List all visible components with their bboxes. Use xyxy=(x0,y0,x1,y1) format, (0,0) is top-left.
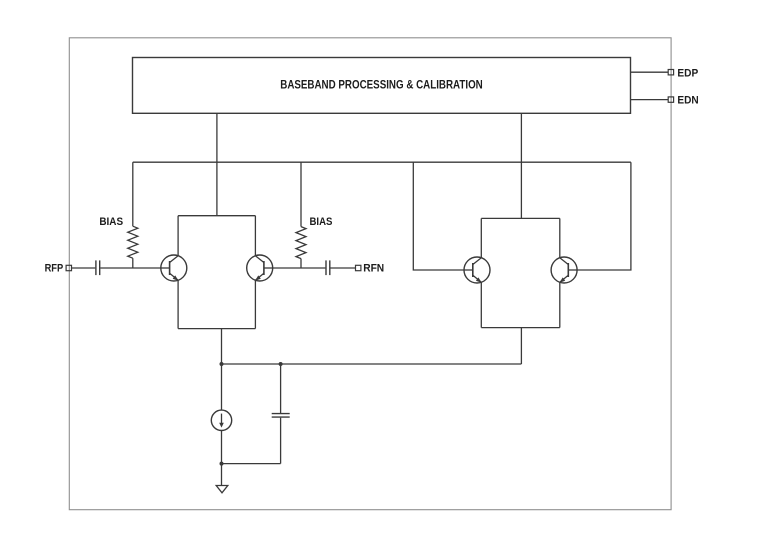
wire: Q2 base to capacitor C2 xyxy=(273,267,326,269)
transistor Q3 xyxy=(464,257,490,283)
pin RFN xyxy=(356,265,361,270)
wire: rail to resistor R1 xyxy=(132,162,134,226)
capacitor C1 xyxy=(96,260,100,275)
wire: bias rail xyxy=(133,161,631,163)
pin EDN xyxy=(668,97,673,102)
wire: left pair top edge xyxy=(178,215,255,217)
svg-text:EDN: EDN xyxy=(677,95,698,107)
wire: tail rail xyxy=(222,363,522,365)
wire: capacitor C1 to Q1 base xyxy=(100,267,161,269)
node: ground junction xyxy=(220,462,224,466)
wire: Q1 collector to left pair top xyxy=(177,216,179,256)
wire: Q4 base up to rail xyxy=(577,162,631,270)
wire: bypass branch to capacitor C3 xyxy=(280,364,282,413)
wire: resistor R1 to RFP line xyxy=(132,258,134,268)
svg-text:BIAS: BIAS xyxy=(99,216,123,228)
wire: Q3 emitter to right pair bottom xyxy=(480,282,482,327)
wire: baseband to EDN pin xyxy=(631,99,669,101)
wire: capacitor C3 to ground rail xyxy=(280,418,282,464)
resistor R1 xyxy=(128,226,138,258)
transistor Q1 xyxy=(161,255,187,281)
resistor R2 xyxy=(296,227,306,259)
wire: right pair bottom to tail rail xyxy=(520,328,522,364)
wire: Q2 emitter to left pair bottom xyxy=(254,280,256,328)
transistor Q2 xyxy=(247,255,273,281)
current source I1 xyxy=(211,410,231,430)
wire: rail down to Q3 base xyxy=(413,162,464,270)
wire: baseband to EDP pin xyxy=(631,71,669,73)
svg-text:RFN: RFN xyxy=(363,262,384,274)
pin EDP xyxy=(668,70,673,75)
wire: ground node to ground symbol xyxy=(221,464,223,486)
wire: current source I1 to ground node xyxy=(221,431,223,464)
node: bypass branch junction xyxy=(279,362,283,366)
baseband block U1 xyxy=(133,58,631,114)
svg-text:RFP: RFP xyxy=(45,262,64,274)
wire: resistor R2 to RFN line xyxy=(300,259,302,268)
svg-text:BIAS: BIAS xyxy=(310,216,333,228)
wire: left pair bottom edge xyxy=(178,328,255,330)
wire: left pair bottom to tail node xyxy=(221,329,223,364)
wire: rail to resistor R2 xyxy=(300,162,302,226)
svg-text:EDP: EDP xyxy=(677,67,698,79)
wire: ground rail xyxy=(222,463,281,465)
wire: baseband to right pair top xyxy=(520,113,522,218)
wire: baseband to left pair top xyxy=(216,113,218,215)
node: tail junction xyxy=(220,362,224,366)
wire: Q2 collector to left pair top xyxy=(254,216,256,256)
wire: Q1 emitter to left pair bottom xyxy=(177,280,179,328)
wire: capacitor C2 to RFN pin xyxy=(330,267,355,269)
transistor Q4 xyxy=(551,257,577,283)
wire: RFP to capacitor C1 xyxy=(72,267,96,269)
wire: right pair top edge xyxy=(481,217,560,219)
wire: tail node to current source I1 xyxy=(221,364,223,410)
svg-text:BASEBAND PROCESSING & CALIBRAT: BASEBAND PROCESSING & CALIBRATION xyxy=(280,78,483,92)
capacitor C2 xyxy=(326,260,330,275)
pin RFP xyxy=(66,265,71,270)
chip boundary xyxy=(69,38,671,510)
wire: Q4 collector to right pair top xyxy=(559,218,561,257)
wire: Q4 emitter to right pair bottom xyxy=(559,282,561,327)
wire: Q3 collector to right pair top xyxy=(480,218,482,257)
capacitor C3 xyxy=(272,414,290,418)
ground xyxy=(216,486,228,493)
wire: right pair bottom edge xyxy=(481,327,560,329)
